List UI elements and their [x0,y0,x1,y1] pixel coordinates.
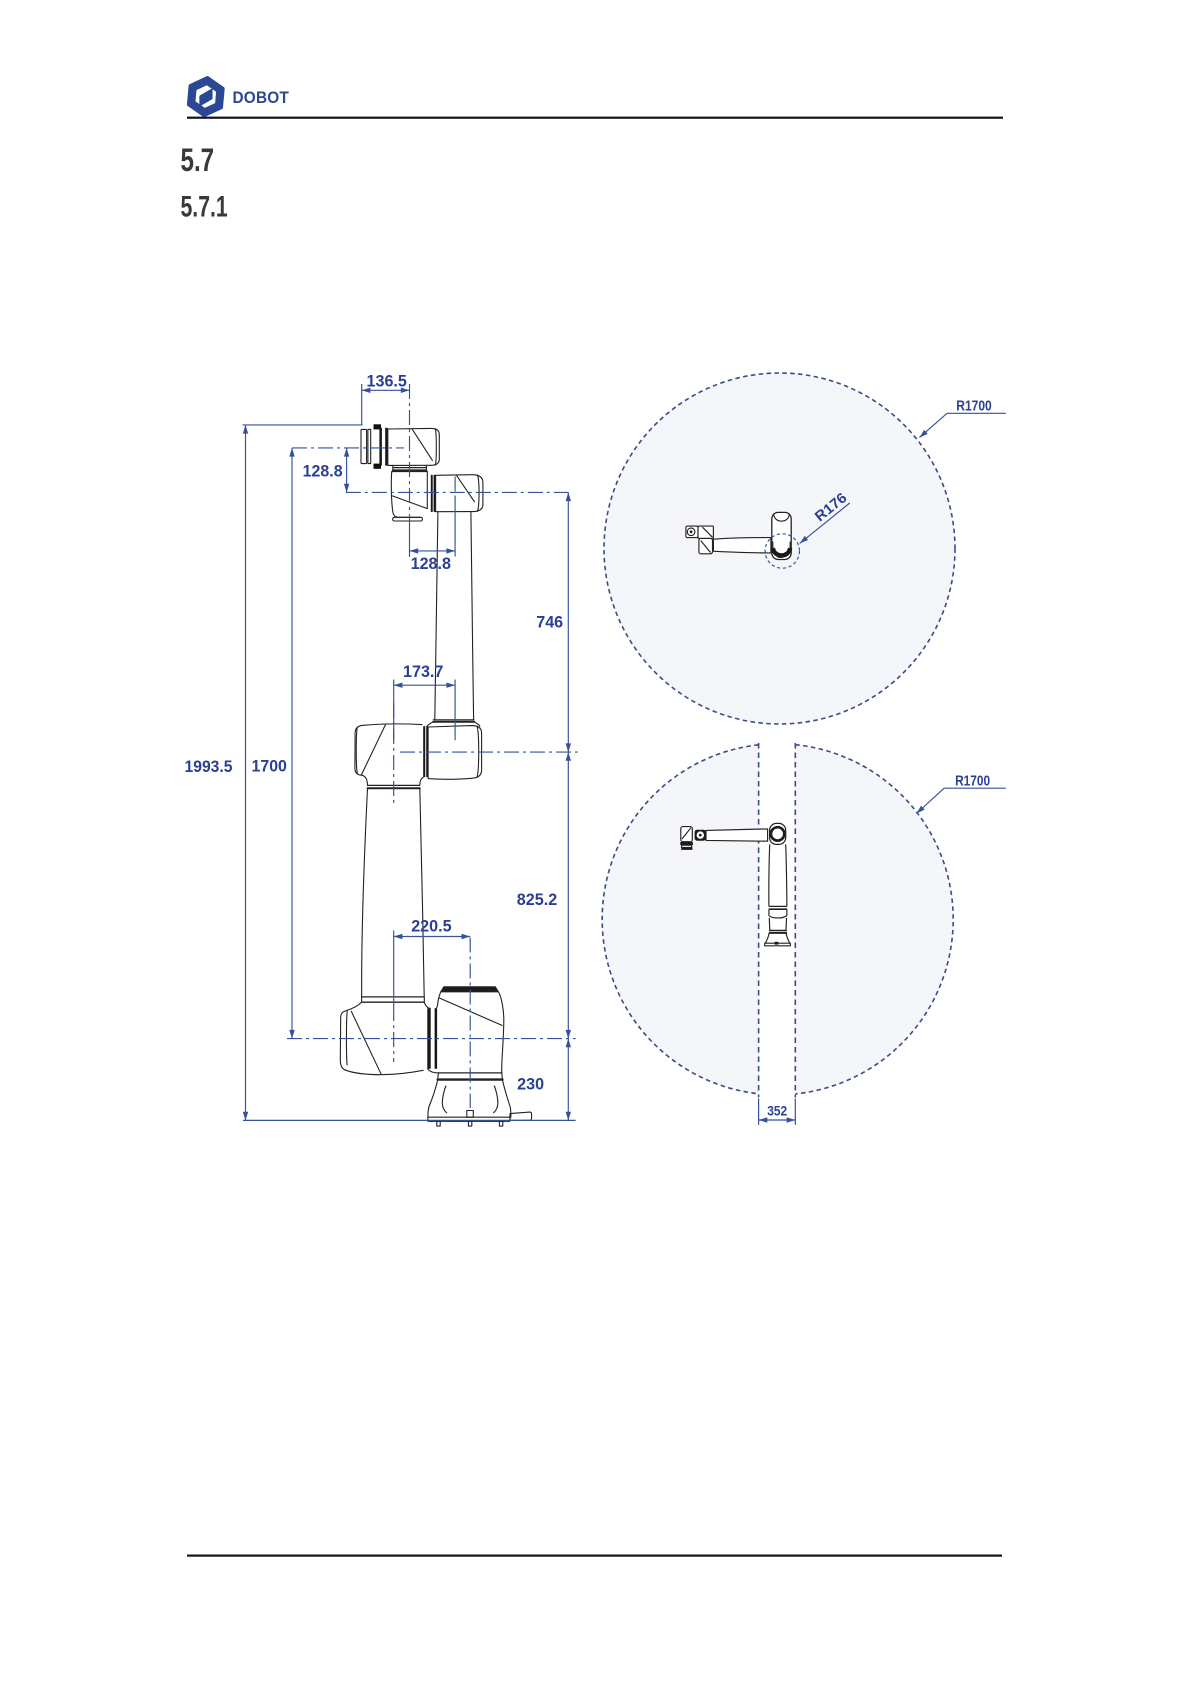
svg-text:1993.5: 1993.5 [185,757,233,776]
center line J5 joint vertical [454,477,456,498]
dimension arrowheads [243,388,571,1121]
svg-text:1700: 1700 [252,757,287,776]
flange clamp screw bottom [374,464,382,469]
svg-text:128.8: 128.8 [303,461,343,480]
dimension line 128.8 left [346,448,348,493]
dimension 352 [759,1099,796,1125]
joint J5 block [436,475,483,512]
workspace dashed arc left [602,745,758,1094]
dimension line 1700 [291,448,293,1039]
flange clamp screw top [374,424,382,429]
front view flange stack [680,842,693,845]
center line J2 axis vertical [393,1006,395,1062]
svg-text:128.8: 128.8 [411,554,451,573]
svg-text:5.7.1: 5.7.1 [181,191,228,224]
workspace circle fill R1700 front view [602,744,953,1095]
extension line 173.7 left [393,680,395,741]
extension line J6 axis lower [409,521,411,557]
svg-text:136.5: 136.5 [367,371,407,390]
center line J6 axis [409,384,411,521]
dimension line 220.5 [394,936,471,938]
extension line 173.7 right [454,680,456,741]
base feet [437,1121,503,1126]
svg-text:173.7: 173.7 [403,662,443,681]
base mounting plate [428,1117,510,1121]
dimension line 128.8 lower [410,550,456,552]
flange interface bars [379,428,387,466]
extension line 136.5 left [361,384,363,425]
center line J5 axis [346,491,569,493]
elbow housing block left [355,724,423,788]
front view base plate [765,943,791,946]
center line base axis horizontal [287,1038,576,1040]
svg-text:220.5: 220.5 [411,917,451,936]
base column [428,987,504,1073]
elbow joint block right [428,726,482,780]
elbow joint interface bars [423,726,428,777]
front view column [768,844,771,906]
front view shoulder [770,823,786,844]
dimension line 173.7 [394,684,455,686]
top view base block [772,512,791,559]
front view base flange [769,929,787,931]
white center strip [759,741,794,1098]
leader R1700 bottom [917,788,1006,813]
ground reference line [243,1119,576,1121]
tool flange plates [361,429,371,463]
shoulder interface bars [427,1008,437,1069]
svg-text:5.7: 5.7 [181,142,215,178]
svg-text:230: 230 [517,1075,544,1094]
top view base dark crescent [773,548,790,556]
center line J3 axis vertical [393,703,395,806]
base skirt [428,1080,511,1117]
dobot logo hexagon [188,78,223,116]
center line elbow axis [400,751,578,753]
extension line J5 joint lower [454,497,456,557]
base flange [438,1073,503,1080]
wrist neck J6-J5 [393,465,427,471]
workspace dashed arc right [795,745,953,1094]
svg-text:R1700: R1700 [955,773,990,789]
top view J6 housing [698,526,713,538]
center line flange axis [292,447,404,449]
top view flange block [686,526,698,538]
top view arm link [713,538,771,553]
dashed circle R176 [765,534,799,568]
extension line 220.5 left [393,931,395,1007]
base center tab [467,1111,474,1118]
dashed strip line left [758,743,760,1098]
joint J6 housing [388,428,440,465]
dimension line 746 / 825.2 / 230 [567,492,569,1120]
dashed strip line right [794,743,796,1098]
shoulder J2 joint block [340,1002,430,1074]
dimension line 1993.5 [245,425,247,1121]
top view J5 housing [699,538,713,553]
dimension line 136.5 [362,389,410,391]
extension line top 1993.5 [243,424,363,426]
upper arm link [427,512,480,727]
leader R1700 top [919,413,1005,437]
workspace circle fill R1700 top view [604,373,955,724]
svg-text:352: 352 [767,1103,787,1119]
lower arm link [362,788,425,1002]
leader R176 [800,503,850,543]
front view arm link [706,829,768,841]
footer rule [187,1555,1002,1557]
front view J6 ring [695,830,706,841]
joint J5 interface bars [431,475,436,512]
header rule [187,117,1003,119]
base right bracket [510,1112,532,1120]
front view base skirt [765,933,769,943]
top view robot [686,512,791,559]
joint J5 housing [391,472,427,521]
front view end effector block [681,827,693,842]
svg-text:R1700: R1700 [956,399,992,415]
workspace circle dashed R1700 top view [604,373,955,724]
front view robot [680,823,790,945]
svg-text:DOBOT: DOBOT [233,89,290,107]
svg-text:825.2: 825.2 [517,890,557,909]
center line J1 axis vertical [469,938,471,1109]
svg-text:746: 746 [536,612,563,631]
